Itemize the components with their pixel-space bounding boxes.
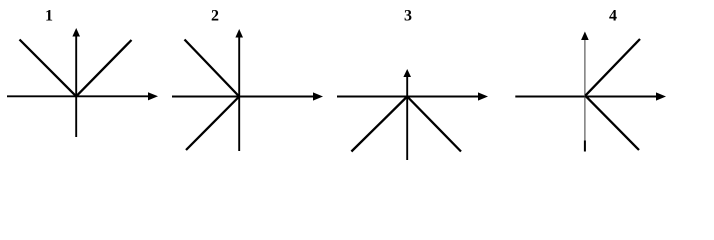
graph 3 ray down-left: [351, 97, 407, 152]
graph 4 y-axis: [581, 32, 589, 152]
graph 4 x-axis: [515, 92, 666, 100]
graph 1 ray up-left: [20, 40, 77, 97]
graph 4 ray up-right: [585, 39, 640, 96]
graph 2 x-axis: [172, 92, 323, 100]
svg-text:2: 2: [211, 8, 219, 25]
graph 1 ray up-right: [76, 40, 131, 96]
svg-text:1: 1: [45, 8, 53, 25]
svg-text:4: 4: [609, 8, 617, 25]
graph 2 y-axis: [235, 29, 243, 151]
graph 1 y-axis: [72, 28, 80, 137]
graph 3 y-axis: [403, 69, 411, 160]
graph 3 ray down-right: [407, 97, 461, 152]
graph 1 x-axis: [7, 92, 158, 100]
graph 2 ray down-left: [186, 97, 239, 151]
graph 4 ray down-right: [585, 96, 639, 150]
svg-text:3: 3: [404, 8, 412, 25]
graph 3 x-axis: [337, 92, 488, 100]
graph 2 ray up-left: [185, 40, 240, 97]
